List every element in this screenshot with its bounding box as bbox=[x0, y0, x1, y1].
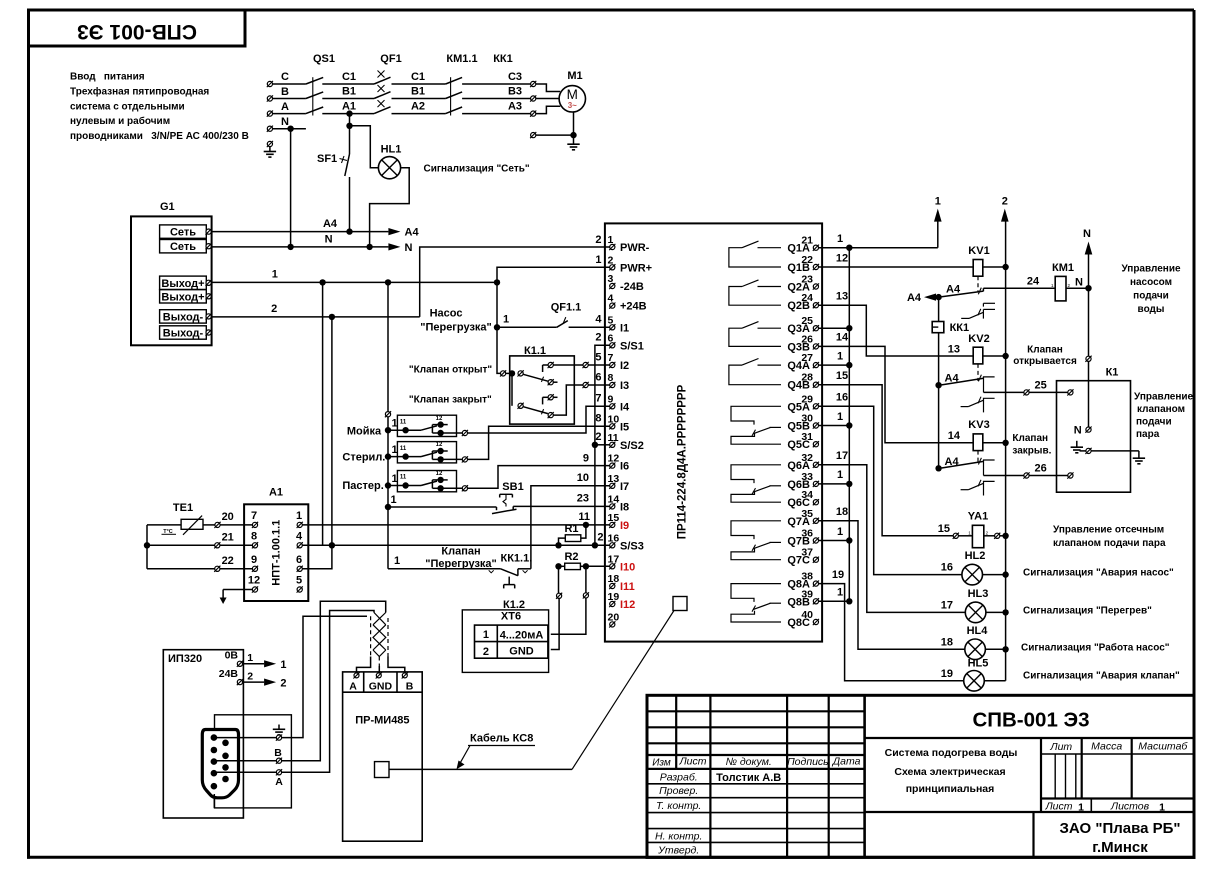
svg-text:проводниками 3/N/PE АС 400/2: проводниками 3/N/PE АС 400/230 В bbox=[70, 131, 249, 142]
svg-text:1: 1 bbox=[280, 659, 286, 671]
svg-text:Лист: Лист bbox=[678, 756, 706, 768]
wire HL2 to bus2 bbox=[983, 574, 1004, 576]
DB9 shell ground stub bbox=[213, 794, 215, 808]
wire number 23 at I8 bbox=[577, 493, 589, 505]
svg-text:подачи: подачи bbox=[1136, 416, 1172, 427]
A4 rail lower bbox=[938, 385, 940, 468]
junction HL1 return bbox=[366, 244, 372, 250]
terminal 26 inner bbox=[1067, 472, 1073, 478]
switch Пастер. contact bbox=[388, 471, 462, 491]
wire I7 riser bbox=[531, 486, 610, 569]
svg-text:А1: А1 bbox=[269, 487, 283, 499]
svg-text:C1: C1 bbox=[411, 71, 425, 83]
sheet labels bbox=[1044, 801, 1165, 814]
push button SB1 bbox=[388, 494, 610, 513]
PLC right pin 31 Q5C bbox=[787, 431, 819, 451]
svg-text:КК1: КК1 bbox=[493, 53, 513, 65]
svg-text:2: 2 bbox=[483, 646, 489, 658]
switch Мойка label bbox=[347, 425, 382, 437]
wire number 15 at Q4B bbox=[836, 370, 848, 382]
PLC left pin 13 I7 bbox=[608, 473, 630, 493]
wire number 1 at Q8B bbox=[837, 587, 843, 599]
RS485 B label bbox=[274, 747, 282, 759]
connector terminal wire21 bbox=[214, 542, 220, 548]
lamp HL2 label bbox=[965, 550, 986, 562]
PLC PR114 box bbox=[605, 223, 822, 641]
wire K1 ground out bbox=[1091, 451, 1139, 458]
svg-text:Стерил.: Стерил. bbox=[342, 452, 385, 464]
svg-text:2: 2 bbox=[1002, 196, 1008, 208]
junction A4 KV2 bbox=[935, 373, 959, 389]
svg-text:GND: GND bbox=[509, 646, 534, 658]
svg-text:12: 12 bbox=[436, 471, 443, 477]
svg-text:1: 1 bbox=[837, 587, 843, 599]
svg-text:А4: А4 bbox=[323, 218, 338, 230]
svg-text:Сигнализация "Сеть": Сигнализация "Сеть" bbox=[424, 163, 530, 174]
disconnector QS1 blade phase A bbox=[306, 107, 323, 114]
junction bus SB1 bbox=[385, 494, 397, 510]
junction bus2 HL2 bbox=[1002, 571, 1008, 577]
push button SB1 label bbox=[502, 481, 523, 493]
svg-text:24: 24 bbox=[1027, 275, 1040, 287]
svg-text:Дата: Дата bbox=[832, 756, 861, 768]
KM1.1 mechanical link bbox=[450, 77, 452, 115]
wire DB9 to A terminal bbox=[217, 771, 277, 773]
wire number 14 at KV3 bbox=[948, 430, 961, 442]
svg-text:8: 8 bbox=[251, 530, 257, 542]
wire label B1 after QF1 bbox=[411, 86, 425, 98]
wire number 18 at HL4 bbox=[941, 636, 953, 648]
wire number 6 at I3 bbox=[595, 371, 601, 383]
lamp HL4 bbox=[965, 639, 986, 660]
KV2 spare contact bbox=[961, 397, 995, 413]
svg-text:HL3: HL3 bbox=[968, 588, 989, 600]
circuit breaker QF1 pole phase B bbox=[374, 85, 390, 99]
svg-text:ИП320: ИП320 bbox=[168, 653, 202, 665]
svg-text:PWR-: PWR- bbox=[620, 242, 650, 254]
PLC right pin 39 Q8B bbox=[787, 588, 819, 608]
wire Q3A to bus1 bbox=[819, 327, 850, 329]
wire 2 label bbox=[271, 303, 277, 315]
svg-text:КМ1: КМ1 bbox=[1052, 262, 1074, 274]
PLC right pin 29 Q5A bbox=[787, 393, 819, 413]
terminal 25 inner bbox=[1067, 389, 1073, 395]
wire Стерил to I5 bbox=[468, 426, 610, 459]
svg-text:12: 12 bbox=[436, 416, 443, 422]
contactor KM1.1 label bbox=[446, 53, 477, 65]
switch Пастер. box bbox=[397, 471, 456, 492]
input terminal PE with ground bbox=[264, 141, 276, 157]
twisted pair fan out bbox=[357, 657, 405, 673]
svg-text:16: 16 bbox=[941, 562, 953, 574]
svg-text:Выход+: Выход+ bbox=[161, 291, 204, 303]
wire number 1 at Q5B bbox=[837, 411, 843, 423]
disconnector QS1 blade phase C bbox=[306, 77, 323, 84]
svg-text:24В: 24В bbox=[219, 668, 239, 680]
lit massa masshtab labels bbox=[1049, 741, 1188, 754]
svg-text:ТЕ1: ТЕ1 bbox=[173, 502, 193, 514]
A1 left pin 7 bbox=[251, 510, 258, 528]
wire number 26 bbox=[1034, 463, 1046, 475]
wire number 11 at I9 bbox=[578, 511, 590, 523]
svg-text:Управление: Управление bbox=[1121, 264, 1181, 275]
wire number 7 at I4 bbox=[595, 393, 601, 405]
wire KV3 to bus2 bbox=[983, 442, 1003, 444]
wire R2 to I10 bbox=[586, 565, 610, 567]
wire RS485 B riser bbox=[282, 601, 386, 760]
wire B3 terminal to motor bbox=[536, 98, 559, 100]
switch Мойка contact bbox=[388, 416, 462, 436]
wire label A1 bbox=[342, 101, 356, 113]
wire number 24 bbox=[1027, 275, 1040, 287]
svg-text:М: М bbox=[567, 87, 578, 102]
junction K1.1 common bbox=[509, 370, 515, 376]
wire DB9 to B terminal bbox=[217, 760, 277, 762]
svg-text:HL2: HL2 bbox=[965, 550, 986, 562]
svg-text:Выход+: Выход+ bbox=[161, 278, 204, 290]
converter PR-MI485 box bbox=[343, 672, 423, 841]
circuit breaker QF1 pole phase A bbox=[374, 100, 390, 114]
PLC left pin 2 PWR+ bbox=[608, 254, 653, 274]
svg-text:"Клапан закрыт": "Клапан закрыт" bbox=[409, 395, 492, 406]
motor terminal A3 bbox=[530, 111, 536, 117]
steam shutoff control text bbox=[1053, 524, 1166, 549]
svg-text:I3: I3 bbox=[620, 380, 629, 392]
valve open text bbox=[409, 365, 492, 376]
wire 21 bbox=[147, 532, 234, 546]
svg-text:I5: I5 bbox=[620, 421, 629, 433]
relay coil KV3 label bbox=[968, 419, 989, 431]
wire Q6B to bus1 bbox=[819, 483, 850, 485]
PLC right pin 32 Q6A bbox=[787, 452, 819, 472]
input terminal B bbox=[267, 86, 289, 102]
svg-text:клапаном: клапаном bbox=[1137, 404, 1185, 415]
svg-text:Клапан: Клапан bbox=[1027, 344, 1063, 355]
connector terminal wire20 bbox=[214, 522, 220, 528]
junction A4 rail top bbox=[935, 294, 941, 300]
pump run text bbox=[1021, 641, 1170, 653]
svg-text:открывается: открывается bbox=[1013, 356, 1077, 367]
svg-text:Управление отсечным: Управление отсечным bbox=[1053, 524, 1164, 535]
G1 terminal Выход- y316 bbox=[160, 310, 212, 324]
svg-text:N: N bbox=[1075, 277, 1083, 289]
wire number 16 at HL2 bbox=[941, 562, 953, 574]
svg-text:HL1: HL1 bbox=[381, 144, 402, 156]
svg-text:Q2B: Q2B bbox=[787, 300, 810, 312]
svg-text:N: N bbox=[1083, 228, 1091, 240]
relay coil KV1 bbox=[973, 260, 983, 277]
wire rail to S/S2 bbox=[595, 444, 610, 446]
svg-text:В: В bbox=[274, 747, 282, 759]
junction wire1 b bbox=[385, 279, 391, 285]
svg-text:C3: C3 bbox=[508, 71, 522, 83]
wire 15 Q4B to YA1 bbox=[819, 385, 954, 536]
svg-text:"Перегрузка": "Перегрузка" bbox=[420, 321, 492, 333]
contact KV1.1 to KM1 bbox=[942, 288, 984, 297]
svg-text:воды: воды bbox=[1138, 304, 1165, 315]
wire number 19 at HL5 bbox=[941, 668, 953, 680]
svg-text:Ввод питания: Ввод питания bbox=[70, 72, 145, 83]
svg-text:Толстик А.В: Толстик А.В bbox=[716, 772, 781, 784]
junction rail2 S/S2 bbox=[592, 442, 598, 448]
contactor coil KM1 label bbox=[1052, 262, 1074, 274]
wire Мойка to I4 bbox=[468, 406, 610, 433]
junction R1 left bbox=[555, 542, 561, 548]
steam valve control text bbox=[1134, 391, 1194, 440]
PLC left pin 17 I10 bbox=[608, 553, 636, 573]
net 2 rail to S/S1 bbox=[595, 345, 610, 545]
svg-text:R2: R2 bbox=[564, 551, 578, 563]
N rail arrow bbox=[1083, 228, 1092, 288]
svg-text:1: 1 bbox=[837, 526, 843, 538]
wire HL1 return bbox=[370, 168, 410, 247]
wire B3 to motor terminal bbox=[462, 98, 530, 100]
wire number 5 at I2 bbox=[595, 351, 601, 363]
svg-text:N: N bbox=[405, 242, 413, 254]
PLC right pin 28 Q4B bbox=[787, 372, 819, 392]
PLC left pin 3 -24В bbox=[608, 273, 644, 293]
wire number 19 at Q8A bbox=[832, 569, 844, 581]
svg-text:Q4B: Q4B bbox=[787, 380, 810, 392]
svg-text:QS1: QS1 bbox=[313, 53, 335, 65]
svg-text:KV3: KV3 bbox=[968, 419, 989, 431]
svg-text:-24В: -24В bbox=[620, 281, 644, 293]
top-left inverted title box СПВ-001 Э3 bbox=[29, 10, 246, 46]
switch Пастер. label bbox=[342, 480, 383, 492]
thermal contact KK1.1 bbox=[489, 569, 531, 589]
wire RS485 ground riser bbox=[282, 616, 367, 737]
A1 pin12 ground bbox=[220, 590, 253, 605]
PLC left pin 14 I8 bbox=[608, 493, 630, 513]
svg-text:9: 9 bbox=[583, 452, 589, 464]
svg-text:SB1: SB1 bbox=[502, 481, 523, 493]
wire number 16 at Q5A bbox=[836, 392, 848, 404]
signal lamp text network bbox=[424, 163, 530, 174]
svg-text:1: 1 bbox=[272, 269, 278, 281]
svg-text:А4: А4 bbox=[405, 227, 420, 239]
svg-text:Разраб.: Разраб. bbox=[660, 771, 698, 783]
wire C3 to motor terminal bbox=[462, 83, 530, 85]
svg-text:КМ1.1: КМ1.1 bbox=[446, 53, 477, 65]
breaker SF1 bbox=[340, 145, 350, 232]
wire number 15 at YA1 bbox=[938, 523, 950, 535]
circuit breaker QF1 pole phase C bbox=[374, 71, 390, 85]
switch Мойка output terminal bbox=[462, 430, 468, 436]
svg-text:Q4A: Q4A bbox=[787, 360, 810, 372]
motor ground symbol bbox=[567, 135, 579, 150]
cable KC8 leader arrow bbox=[457, 746, 471, 770]
KV3 mechanical link bbox=[977, 451, 979, 464]
PLC left pin 10 I5 bbox=[608, 413, 630, 433]
contactor coil KM1 bbox=[1051, 276, 1071, 301]
svg-text:пара: пара bbox=[1136, 429, 1160, 440]
aux breaker QF1.1 bbox=[497, 317, 610, 327]
switch Стерил. output terminal bbox=[462, 456, 468, 462]
wire 16 Q5A to HL2 bbox=[819, 406, 962, 574]
junction bus1 Q7B bbox=[846, 537, 852, 543]
junction bus1 Q5B bbox=[846, 422, 852, 428]
wire number 2 at S/S2 bbox=[595, 431, 601, 443]
svg-text:Листов: Листов bbox=[1110, 801, 1150, 813]
junction wire1 a bbox=[319, 279, 325, 285]
G1 terminal Сеть y246 bbox=[160, 240, 212, 254]
TE1 left lead bbox=[147, 525, 181, 569]
wire Q4A to bus1 bbox=[819, 364, 850, 366]
wire 2 A1 pin4 to S/S3 bbox=[302, 544, 609, 546]
K1.1 upper blade bbox=[523, 374, 548, 382]
thermal relay KK1 label bbox=[493, 53, 513, 65]
wire Пастер to I6 bbox=[468, 466, 610, 489]
PLC left pin 8 I3 bbox=[608, 372, 630, 392]
svg-text:I1: I1 bbox=[620, 322, 629, 334]
svg-text:A3: A3 bbox=[508, 101, 522, 113]
svg-text:YA1: YA1 bbox=[968, 510, 988, 522]
wire 1 label bbox=[272, 269, 278, 281]
svg-text:Провер.: Провер. bbox=[659, 785, 698, 797]
wire number 1 at Q6B bbox=[837, 469, 843, 481]
valve unit K1 label bbox=[1106, 367, 1119, 379]
wire label B1 bbox=[342, 86, 356, 98]
PLC right pin 38 Q8A bbox=[787, 571, 819, 591]
wire C1 QF1 to KM1.1 bbox=[392, 83, 446, 85]
svg-text:КК1.1.: КК1.1. bbox=[501, 553, 533, 565]
wire to pin I2 bbox=[588, 364, 609, 366]
svg-text:№ докум.: № докум. bbox=[726, 756, 772, 768]
lamp HL5 label bbox=[968, 657, 989, 669]
svg-text:17: 17 bbox=[941, 600, 953, 612]
svg-text:Q7A: Q7A bbox=[787, 516, 810, 528]
svg-text:B1: B1 bbox=[411, 86, 425, 98]
wire KV1 to bus2 bbox=[983, 266, 1003, 268]
PLC right pin 37 Q7C bbox=[787, 547, 819, 567]
switch Стерил. contact bbox=[388, 442, 462, 462]
svg-text:I7: I7 bbox=[620, 481, 629, 493]
wire label C3 bbox=[508, 71, 522, 83]
RS485 A terminal bbox=[276, 769, 282, 775]
terminal N outer bbox=[1085, 356, 1091, 362]
PLC right pin 24 Q2B bbox=[787, 292, 819, 312]
switch QS1 label bbox=[313, 53, 335, 65]
svg-text:Q1B: Q1B bbox=[787, 262, 810, 274]
relay coil KV2 bbox=[973, 347, 983, 364]
svg-text:Кабель КС8: Кабель КС8 bbox=[470, 733, 533, 745]
svg-text:Q5A: Q5A bbox=[787, 401, 810, 413]
svg-text:M1: M1 bbox=[567, 70, 582, 82]
svg-text:S/S3: S/S3 bbox=[620, 540, 644, 552]
wire number 13 at Q2B bbox=[836, 291, 848, 303]
wire C1 QS1 to QF1 bbox=[322, 83, 374, 85]
lamp HL1 label bbox=[381, 144, 402, 156]
svg-text:Масштаб: Масштаб bbox=[1138, 741, 1188, 753]
PLC right pin 26 Q3B bbox=[787, 333, 819, 353]
document code title bbox=[972, 709, 1089, 732]
K1.1 lower NO terminal bbox=[543, 394, 558, 404]
motor terminal B3 bbox=[530, 95, 536, 101]
PLC right pin 33 Q6B bbox=[787, 471, 819, 491]
lamp HL4 label bbox=[967, 625, 989, 637]
svg-text:12: 12 bbox=[836, 252, 848, 264]
terminal YA1 right bbox=[994, 533, 1000, 539]
valve alarm text bbox=[1023, 670, 1180, 681]
svg-text:ПР-МИ485: ПР-МИ485 bbox=[355, 715, 409, 727]
junction bus2 KV2 bbox=[1002, 353, 1008, 359]
RS485 ground terminal bbox=[276, 735, 282, 741]
lamp HL5 bbox=[964, 671, 985, 692]
svg-text:13: 13 bbox=[948, 343, 960, 355]
PLC left pin 12 I6 bbox=[608, 453, 630, 473]
motor M1 bbox=[559, 86, 585, 112]
PR-MI485 terminal GND bbox=[369, 672, 393, 692]
svg-text:1: 1 bbox=[483, 629, 489, 641]
wire 1 up to PWR+ bbox=[497, 267, 610, 282]
A1 left pin 12 bbox=[248, 575, 260, 593]
svg-text:Сеть: Сеть bbox=[170, 241, 196, 253]
wire N down to N bus bbox=[290, 129, 292, 247]
connector K1.2 box bbox=[462, 610, 548, 673]
contact KV2.1 to valve open bbox=[942, 375, 995, 393]
wire number 1 at PWR+ bbox=[595, 254, 601, 266]
PLC output changeover contact Q7 bbox=[731, 521, 781, 560]
svg-text:C: C bbox=[281, 71, 289, 83]
wire 13 Q2B to KV2 coil bbox=[819, 305, 974, 356]
svg-text:1: 1 bbox=[1078, 802, 1084, 814]
wire label A2 after QF1 bbox=[411, 101, 425, 113]
wire number 17 at Q6A bbox=[836, 450, 848, 462]
svg-text:К1: К1 bbox=[1106, 367, 1119, 379]
svg-text:Схема электрическая: Схема электрическая bbox=[894, 766, 1005, 778]
svg-text:A: A bbox=[281, 101, 289, 113]
svg-text:Сигнализация "Перегрев": Сигнализация "Перегрев" bbox=[1023, 605, 1152, 616]
K1.1 common terminal upper bbox=[518, 370, 524, 376]
svg-text:ХТ6: ХТ6 bbox=[501, 611, 521, 623]
junction bus1 Q8B bbox=[846, 598, 852, 604]
junction R2 right bbox=[583, 563, 589, 569]
junction bus2 HL4 bbox=[1002, 646, 1008, 652]
svg-text:3~: 3~ bbox=[568, 101, 577, 110]
IP320 connector sub box bbox=[215, 715, 292, 808]
K1.1 upper NC terminal bbox=[548, 379, 558, 385]
wire DB9 to ground terminal bbox=[217, 737, 277, 739]
wire B1 QS1 to QF1 bbox=[322, 98, 374, 100]
svg-text:1: 1 bbox=[296, 510, 302, 522]
svg-text:+24В: +24В bbox=[620, 301, 647, 313]
wire 22 to A1 pin9 bbox=[220, 568, 252, 570]
DB9 pin left 3 bbox=[211, 758, 218, 765]
PLC right pin 30 Q5B bbox=[787, 413, 819, 433]
wire phase C to QS1 bbox=[273, 83, 306, 85]
PLC output changeover contact Q6 bbox=[731, 465, 781, 502]
svg-text:2: 2 bbox=[247, 671, 253, 683]
cable KC8 label bbox=[468, 733, 535, 746]
wire label C1 after QF1 bbox=[411, 71, 425, 83]
svg-text:14: 14 bbox=[836, 332, 849, 344]
PR-MI485 terminal strip bbox=[343, 672, 423, 692]
wire number 9 at I6 bbox=[583, 452, 589, 464]
junction bus wire Мойка bbox=[385, 418, 398, 434]
net 2 ladder bus bbox=[1005, 221, 1007, 681]
wire 2 up to PWR- bbox=[420, 247, 610, 317]
wire A3 to motor terminal bbox=[462, 113, 530, 115]
PLC left pin 16 S/S3 bbox=[608, 532, 644, 552]
PR-MI485 terminal B bbox=[402, 672, 414, 692]
motor ground wire bbox=[536, 112, 574, 135]
A1 right pin 4 bbox=[296, 530, 303, 548]
PLC left pin 5 I1 bbox=[608, 314, 630, 334]
svg-text:Клапан: Клапан bbox=[441, 546, 480, 558]
svg-text:23: 23 bbox=[577, 493, 589, 505]
svg-text:ЗАО "Плава РБ": ЗАО "Плава РБ" bbox=[1059, 820, 1180, 837]
wire A4 from G1 bbox=[211, 231, 388, 233]
